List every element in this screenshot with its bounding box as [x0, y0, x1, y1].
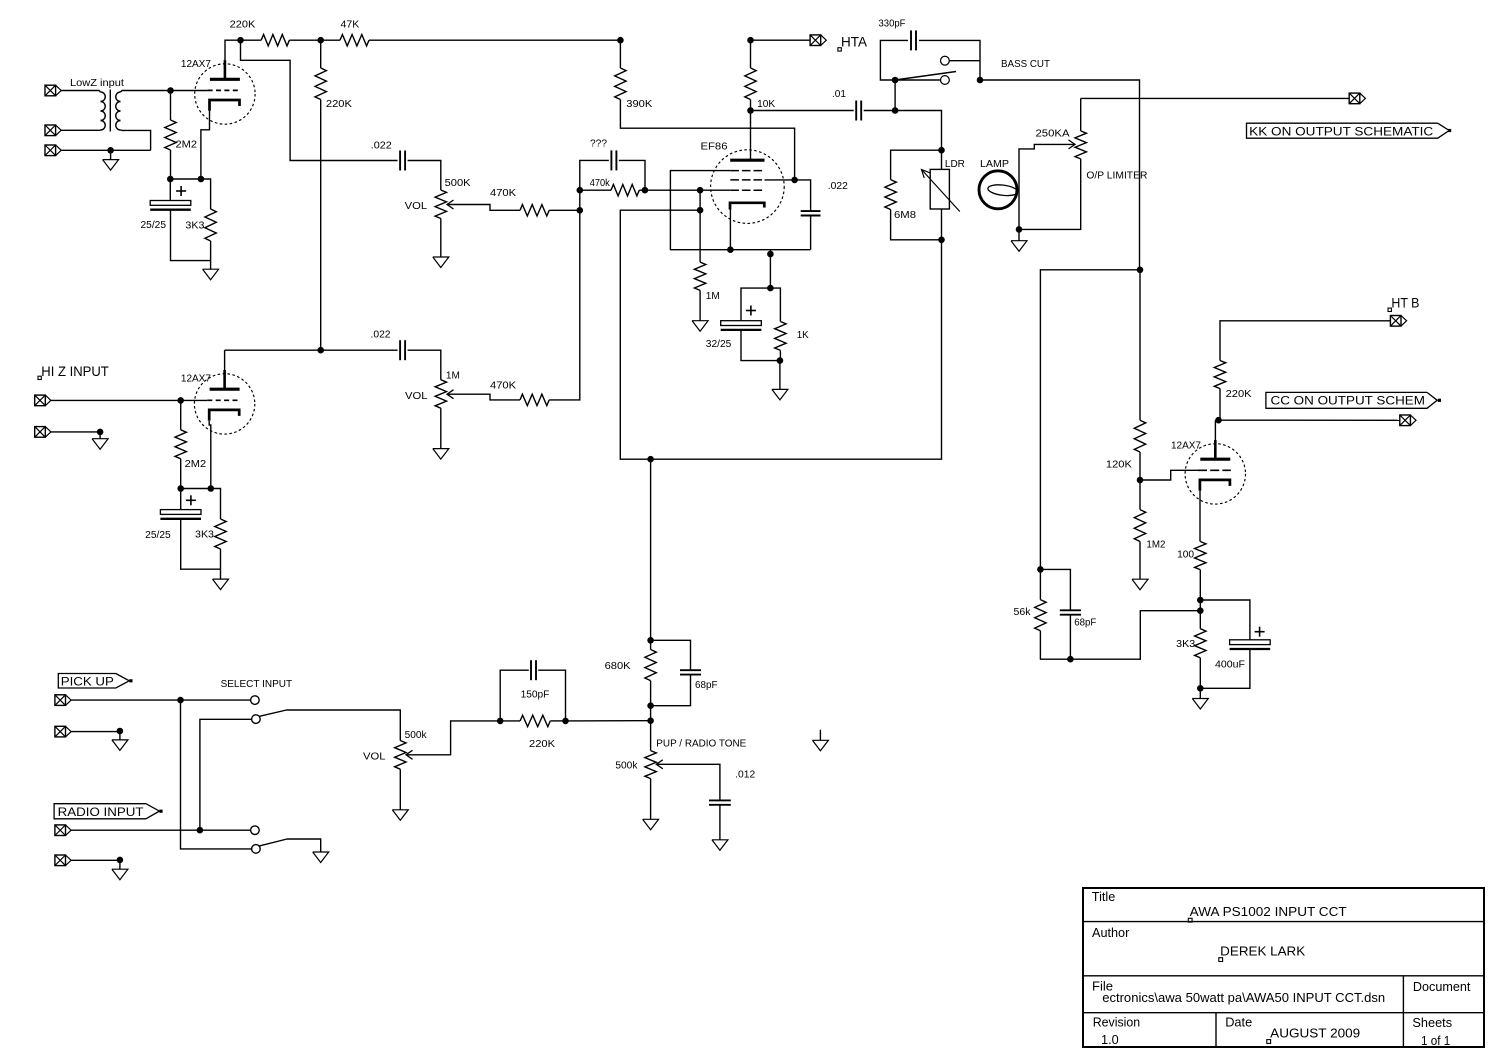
svg-text:.022: .022: [828, 181, 848, 192]
wire radio to upper pole: [200, 719, 252, 830]
wire R8 to mix node: [549, 210, 580, 400]
EF86 cathode: [730, 203, 764, 210]
node T1 secondary ground junction: [107, 147, 114, 154]
resistor R2 220K plate load: [261, 35, 289, 46]
svg-text:470K: 470K: [490, 188, 516, 199]
switch S2 contact pickup: [251, 696, 260, 705]
wire V1 cathode lead: [201, 111, 210, 179]
terminal J4 HiZ pin 1: [35, 395, 46, 406]
wiper arrow VR2: [447, 390, 454, 399]
banner CC ON OUTPUT SCHEM: [1266, 392, 1437, 408]
wire R12 bottom: [779, 350, 781, 360]
switch S1 under-lever wire: [895, 79, 940, 81]
wire VR2 wiper: [447, 394, 520, 400]
svg-text:470k: 470k: [590, 178, 611, 189]
ground VR4: [650, 779, 652, 820]
svg-text:BASS CUT: BASS CUT: [1001, 59, 1050, 70]
wiper arrow VR4: [656, 760, 663, 769]
wire VR5 wiper: [406, 721, 500, 755]
node g1: [697, 187, 704, 194]
node feedback branch: [1137, 267, 1144, 274]
svg-text:1M: 1M: [706, 291, 720, 302]
wire tone node down: [650, 459, 652, 640]
wiper arrow VR5: [406, 750, 413, 759]
resistor R15 6M8: [891, 150, 942, 179]
ground switch: [313, 852, 329, 863]
node tone node: [647, 456, 654, 463]
terminal J2 LowZ pin 2: [45, 125, 56, 136]
wire C11 bottom: [1069, 615, 1071, 660]
potentiometer VR3 250KA limiter: [1080, 98, 1082, 130]
wire KK feed: [1081, 97, 1350, 99]
svg-text:220K: 220K: [529, 739, 555, 750]
wire bass cut riser: [894, 80, 896, 111]
wire plate node to C5: [751, 110, 854, 112]
node LDR bottom: [938, 237, 945, 244]
wire R4 bottom: [210, 241, 212, 261]
svg-text:1M2: 1M2: [1146, 540, 1165, 551]
plus sign C1: [176, 190, 186, 192]
resistor R9 3K3 cathode: [215, 519, 226, 549]
wire C7 bottom: [741, 330, 780, 361]
node tone junction: [647, 717, 654, 724]
svg-text:470K: 470K: [490, 381, 516, 392]
svg-text:25/25: 25/25: [145, 530, 171, 541]
wire V2 plate node to C3: [225, 349, 398, 351]
svg-text:PUP / RADIO TONE: PUP / RADIO TONE: [656, 739, 746, 750]
terminal J8 radio hot: [55, 825, 66, 836]
tube V4 12AX7 (output): [1185, 444, 1245, 504]
ground J7: [119, 731, 121, 740]
node 390K top: [617, 37, 624, 44]
ground R14: [699, 290, 701, 320]
switch S2 lower lever: [259, 839, 287, 846]
node bass cut common: [892, 77, 899, 84]
wire EF86 plate lead: [750, 111, 752, 161]
anchor square HTA: [838, 48, 841, 51]
svg-text:DEREK LARK: DEREK LARK: [1220, 944, 1305, 959]
wire CC out: [1220, 419, 1400, 421]
wire R23 to tone junction: [500, 720, 520, 722]
terminal HT B: [1390, 316, 1401, 327]
ground V1 cathode: [210, 261, 212, 270]
potentiometer VR1 500K VOL: [435, 190, 446, 219]
terminal CC: [1400, 415, 1411, 426]
ground VR2: [440, 408, 442, 448]
node 680K bottom: [647, 702, 654, 709]
tube V3 EF86 envelope: [711, 150, 785, 224]
node 680K top: [647, 637, 654, 644]
svg-text:???: ???: [590, 139, 607, 150]
title block frame: [1083, 888, 1484, 1047]
svg-text:500k: 500k: [405, 730, 428, 741]
ground J5: [99, 432, 101, 439]
potentiometer VR5 500k VOL: [395, 741, 406, 770]
node bass cut out: [977, 77, 984, 84]
svg-text:220K: 220K: [230, 20, 256, 31]
capacitor C3 .022 coupling: [399, 340, 401, 360]
anchor square HI Z: [38, 376, 41, 379]
capacitor C2 .022 coupling: [399, 151, 401, 171]
wire to C10: [1200, 600, 1250, 640]
wire C13 to ground: [719, 805, 721, 840]
switch S2 contact upper pole: [252, 715, 261, 724]
terminal J3 LowZ pin 3: [45, 145, 56, 156]
resistor R20 3K3 cathode: [1199, 611, 1201, 629]
plus sign C7: [746, 310, 756, 312]
wire VR1 wiper: [447, 205, 520, 211]
node J7 ground: [117, 728, 124, 735]
wire lower lever to ground: [287, 839, 321, 852]
resistor R1 2M2 grid leak: [170, 91, 172, 121]
terminal KK: [1349, 93, 1360, 104]
capacitor C5 .01 coupling: [855, 101, 857, 121]
node V4 plate: [1215, 417, 1222, 424]
node 150pF right: [562, 718, 569, 725]
svg-text:47K: 47K: [341, 19, 360, 30]
switch S2 upper lever: [259, 710, 286, 716]
wire R5 to mix node: [549, 209, 580, 211]
wire feedback to divider: [1040, 611, 1200, 660]
svg-text:.022: .022: [371, 330, 391, 341]
svg-text:10K: 10K: [757, 99, 775, 110]
wire mix vertical: [580, 160, 609, 210]
capacitor C4 25/25 lead: [180, 489, 182, 510]
tube V1 12AX7 (a): [195, 64, 255, 124]
wire V2 cathode lead: [209, 421, 211, 489]
capacitor C11 68pF feedback: [1060, 609, 1081, 611]
svg-text:330pF: 330pF: [879, 19, 906, 30]
wire to g1: [645, 189, 730, 191]
wire V2 plate up: [224, 350, 226, 370]
transformer T1 right winding: [116, 92, 121, 102]
terminal J6 pickup hot: [55, 695, 66, 706]
node screen g2: [791, 177, 798, 184]
wire g1 down: [699, 190, 701, 262]
wire to C11: [1040, 569, 1070, 610]
ground V2 cathode: [220, 569, 222, 579]
wire to C7: [741, 288, 770, 321]
terminal J7 pickup gnd: [55, 726, 66, 737]
svg-text:KK ON OUTPUT SCHEMATIC: KK ON OUTPUT SCHEMATIC: [1249, 125, 1433, 139]
node 220K/47K junction: [317, 37, 324, 44]
svg-text:68pF: 68pF: [1074, 618, 1096, 629]
svg-text:Title: Title: [1092, 889, 1116, 904]
resistor R21 56k feedback: [1039, 569, 1041, 599]
wire VR4 wiper to C13: [656, 764, 720, 800]
EF86 g2 screen: [730, 179, 764, 181]
node divider bottom: [1067, 656, 1074, 663]
wire switch upper contact: [949, 60, 980, 62]
resistor R13 470k grid stopper: [580, 189, 611, 191]
wire C4 bottom: [181, 519, 221, 569]
wire tone tap run: [620, 210, 700, 459]
svg-text:400uF: 400uF: [1215, 660, 1245, 671]
svg-text:68pF: 68pF: [695, 680, 718, 691]
wire to R12: [770, 288, 780, 321]
wire to tone junction: [650, 706, 652, 721]
wire J8 to switch: [71, 829, 251, 831]
LDR body: [941, 150, 943, 169]
svg-text:12AX7: 12AX7: [181, 59, 211, 70]
svg-text:Author: Author: [1092, 925, 1130, 940]
resistor R10 390K screen feed: [619, 40, 621, 68]
resistor R17 1M2: [1139, 480, 1141, 510]
resistor R3 47K: [340, 35, 369, 46]
svg-text:120K: 120K: [1106, 460, 1132, 471]
resistor R7 220K V2 plate load: [320, 40, 322, 68]
node R13 C8 junction: [642, 187, 649, 194]
resistor R11 10K plate load: [750, 40, 752, 68]
plus sign C10: [1255, 631, 1265, 633]
svg-text:.012: .012: [735, 770, 755, 781]
capacitor C1 25/25 electrolytic: [150, 201, 191, 206]
node 150pF left: [497, 718, 504, 725]
ground VR5: [399, 769, 401, 810]
wire bias tap down: [769, 250, 771, 288]
node radio branch: [197, 827, 204, 834]
node bias network top: [767, 285, 774, 292]
svg-text:1 of 1: 1 of 1: [1421, 1033, 1450, 1048]
LDR arrow: [922, 170, 960, 212]
node C5 output: [892, 107, 899, 114]
wire cathode link: [181, 489, 221, 520]
resistor R6 2M2 grid leak: [180, 400, 182, 429]
terminal J9 radio gnd: [55, 855, 66, 866]
node cathode lower: [1197, 607, 1204, 614]
node divider top: [1037, 566, 1044, 573]
ground limiter: [1018, 229, 1020, 240]
wire C5 to LDR: [895, 111, 941, 151]
node V2 grid junction: [177, 397, 184, 404]
wire grid tube V1: [171, 90, 208, 92]
switch S2 contact lower pole: [252, 845, 261, 854]
svg-text:LDR: LDR: [945, 159, 965, 170]
svg-text:HI Z INPUT: HI Z INPUT: [41, 363, 109, 379]
node cathode on rail: [727, 246, 734, 253]
wire lever to VR5: [287, 710, 401, 741]
EF86 g3 suppressor: [730, 170, 764, 172]
potentiometer VR2 1M VOL: [435, 380, 446, 409]
wire node to 47K: [321, 39, 340, 41]
resistor R8 470K mix: [520, 394, 549, 405]
node 10K top: [747, 37, 754, 44]
resistor R5 470K mix: [520, 205, 549, 216]
wire R9 bottom: [220, 549, 222, 569]
wire plate node down: [1214, 420, 1216, 440]
wire J5 to ground: [51, 431, 100, 433]
potentiometer VR4 500k tone: [645, 751, 656, 779]
node cathode upper: [1197, 597, 1204, 604]
svg-text:Document: Document: [1413, 979, 1471, 994]
svg-text:VOL: VOL: [405, 201, 428, 212]
node EF86 plate: [747, 107, 754, 114]
node V4 grid node: [1137, 477, 1144, 484]
anchor square HT B: [1388, 308, 1391, 311]
wire C10 bottom: [1200, 649, 1250, 688]
wire C3 to VR2: [408, 350, 441, 380]
plus sign C4: [186, 499, 196, 501]
svg-text:ectronics\awa 50watt pa\AWA50: ectronics\awa 50watt pa\AWA50 INPUT CCT.…: [1102, 990, 1385, 1005]
node mix top: [577, 187, 584, 194]
capacitor C9 330pF loop: [880, 40, 908, 80]
capacitor C13 .012: [709, 799, 731, 801]
node 2M2 bottom: [167, 176, 174, 183]
terminal J5 HiZ pin 2: [35, 427, 46, 438]
capacitor C8 ??? parallel: [610, 150, 612, 170]
wire C2 to VOL1: [408, 161, 441, 191]
resistor R18 220K plate load: [1220, 321, 1390, 361]
svg-text:220K: 220K: [1226, 389, 1252, 400]
svg-text:390K: 390K: [626, 99, 652, 110]
EF86 g1 control grid: [730, 189, 764, 191]
anchor square title: [1188, 918, 1192, 922]
tube V2 12AX7 (b): [194, 374, 254, 434]
terminal HTA: [810, 35, 821, 46]
svg-text:HTA: HTA: [841, 34, 868, 50]
svg-text:150pF: 150pF: [521, 690, 550, 701]
svg-text:Date: Date: [1225, 1014, 1252, 1029]
node bias network bottom: [777, 357, 784, 364]
wire J3 to winding: [61, 149, 150, 151]
svg-text:LAMP: LAMP: [980, 159, 1009, 170]
lamp LP1: [979, 171, 1017, 209]
svg-text:100: 100: [1177, 550, 1194, 561]
wire VR3 wiper to lamp: [1019, 144, 1075, 229]
wire bass cut output run: [980, 80, 1140, 270]
svg-text:12AX7: 12AX7: [181, 373, 211, 384]
svg-text:12AX7: 12AX7: [1171, 440, 1201, 451]
ground V4 cathode: [1199, 688, 1201, 698]
svg-text:VOL: VOL: [405, 391, 428, 402]
node V4 cathode ground: [1197, 685, 1204, 692]
node LDR top: [938, 147, 945, 154]
svg-text:2M2: 2M2: [185, 459, 207, 470]
resistor R4 3K3 cathode: [205, 209, 216, 241]
ground below T1: [110, 150, 112, 159]
node bias tap on rail: [767, 251, 774, 258]
svg-text:680K: 680K: [605, 661, 631, 672]
svg-text:RADIO INPUT: RADIO INPUT: [58, 805, 145, 819]
svg-text:Revision: Revision: [1093, 1014, 1141, 1029]
wire screen to bypass cap: [795, 180, 811, 211]
node pickup branch: [177, 697, 184, 704]
terminal J1 LowZ pin 1: [45, 85, 56, 96]
switch S1 lever: [895, 72, 956, 81]
switch S1 lower contact: [941, 76, 950, 85]
wire J4 to V2 grid: [51, 399, 207, 401]
resistor R22 680K: [650, 640, 652, 649]
ground J9: [119, 860, 121, 869]
EF86 plate bar: [730, 159, 764, 162]
svg-text:2M2: 2M2: [176, 140, 198, 151]
wire feedback branch: [1040, 270, 1140, 570]
capacitor C12 68pF loop: [651, 640, 691, 670]
svg-text:3K3: 3K3: [1176, 639, 1195, 650]
svg-text:6M8: 6M8: [894, 210, 916, 221]
svg-text:CC ON OUTPUT SCHEM: CC ON OUTPUT SCHEM: [1271, 394, 1426, 408]
ground C13: [712, 840, 728, 851]
svg-text:O/P LIMITER: O/P LIMITER: [1086, 171, 1147, 182]
svg-text:PICK UP: PICK UP: [61, 675, 114, 689]
wire HT rail to 390K node: [369, 39, 620, 41]
svg-text:1K: 1K: [797, 330, 809, 341]
node tone tap: [697, 207, 704, 214]
wire C5 to bass cut: [864, 110, 895, 112]
svg-text:220K: 220K: [326, 99, 352, 110]
svg-text:1.0: 1.0: [1101, 1032, 1119, 1047]
svg-text:3K3: 3K3: [185, 221, 204, 232]
svg-text:250KA: 250KA: [1036, 129, 1070, 140]
switch S2 contact radio: [251, 826, 260, 835]
resistor R19 100 cathode: [1195, 542, 1206, 570]
svg-text:3K3: 3K3: [195, 530, 214, 541]
wire J6 to switch: [71, 699, 251, 701]
switch S1 upper contact: [941, 56, 950, 65]
node J5 ground: [97, 429, 104, 436]
anchor square date: [1267, 1040, 1271, 1044]
wire tone node to LDR leg: [651, 240, 942, 459]
wire C1 bottom: [171, 210, 211, 261]
wire J9 to ground: [71, 859, 120, 861]
wire V4 cathode lead: [1199, 491, 1201, 542]
svg-text:500k: 500k: [615, 761, 638, 772]
banner RADIO INPUT: [54, 804, 159, 819]
svg-text:AUGUST 2009: AUGUST 2009: [1270, 1026, 1360, 1041]
svg-text:EF86: EF86: [701, 142, 728, 153]
capacitor C6 .022 screen bypass: [801, 210, 821, 212]
wiper arrow VR1: [447, 200, 454, 209]
wire g2 to screen node: [765, 179, 795, 181]
wire R2 to node: [289, 39, 320, 41]
capacitor C14 150pF loop: [500, 670, 529, 721]
svg-text:500K: 500K: [445, 178, 471, 189]
node R6 bottom: [177, 485, 184, 492]
capacitor C4 25/25 electrolytic: [160, 510, 201, 515]
capacitor C7 32/25 electrolytic: [721, 321, 762, 326]
svg-text:25/25: 25/25: [141, 220, 167, 231]
transformer T1 core: [109, 90, 111, 132]
wire C6 to cathode rail: [810, 216, 812, 250]
svg-text:.022: .022: [371, 141, 392, 152]
node V1 cathode: [198, 176, 205, 183]
node V2 cathode: [208, 485, 215, 492]
node V1 plate: [237, 37, 244, 44]
wire node pair: [1199, 600, 1201, 611]
wire pickup to lower pole: [181, 700, 252, 849]
transformer T1 left winding: [61, 91, 100, 93]
wire tone junction to pot: [650, 721, 652, 751]
resistor R14 1M grid leak: [694, 262, 705, 290]
anchor square author: [1219, 958, 1223, 962]
node mix bottom: [577, 207, 584, 214]
resistor R16 120K: [1139, 270, 1141, 421]
svg-text:Sheets: Sheets: [1412, 1015, 1452, 1030]
wire EF86 cathode lead: [729, 210, 731, 250]
ground floating: [819, 730, 821, 741]
svg-text:SELECT INPUT: SELECT INPUT: [221, 678, 293, 690]
ground VR1: [440, 219, 442, 258]
wire V4 grid jog: [1140, 470, 1198, 480]
banner KK ON OUTPUT SCHEMATIC: [1247, 123, 1450, 138]
wire g3 box: [670, 171, 810, 250]
node limiter ground: [1016, 226, 1023, 233]
svg-text:LowZ input: LowZ input: [70, 78, 124, 89]
ground bias network: [779, 361, 781, 390]
wiper arrow VR3: [1069, 140, 1076, 149]
svg-text:AWA PS1002 INPUT CCT: AWA PS1002 INPUT CCT: [1190, 904, 1347, 919]
node J9 ground: [117, 857, 124, 864]
